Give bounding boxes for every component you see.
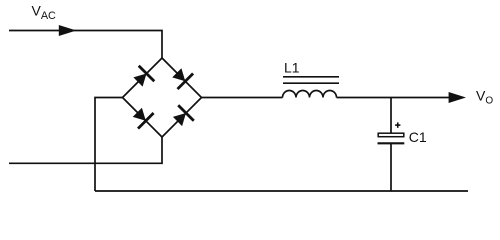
arrowhead: AC input direction bbox=[59, 25, 77, 36]
wire: AC input bottom, from left edge to bridge bottom vertex bbox=[9, 137, 162, 163]
capacitor C1 polarity + sign bbox=[395, 122, 400, 127]
wire: output node down to capacitor C1 top plate bbox=[390, 98, 392, 134]
wire: bridge right vertex to inductor bbox=[202, 97, 283, 99]
inductor L1 core lines bbox=[283, 77, 339, 83]
wire: AC input top, from left edge to bridge top vertex bbox=[9, 31, 162, 59]
diode D2 (bridge top-right, anode at top vertex, cathode at right vertex) bbox=[172, 68, 193, 89]
wire: bottom rail bbox=[95, 190, 468, 192]
capacitor C1 top plate (hollow rectangle) bbox=[378, 133, 404, 137]
diode D4 (bridge bottom-right, anode at bottom vertex, cathode at right vertex) bbox=[173, 105, 194, 126]
bridge rectifier: diamond wires bbox=[123, 58, 202, 137]
wire: capacitor C1 bottom plate to bottom rail bbox=[390, 144, 392, 191]
diode D3 (bridge bottom-left, anode at left vertex, cathode at bottom vertex) bbox=[133, 108, 154, 129]
wire: bridge left vertex to bottom rail bbox=[95, 98, 123, 192]
inductor L1 coil bbox=[283, 91, 337, 98]
svg-text:C1: C1 bbox=[409, 129, 427, 145]
capacitor C1 bottom plate bbox=[378, 142, 405, 144]
wire: inductor to output arrow bbox=[337, 97, 451, 99]
arrowhead: output VO bbox=[449, 92, 466, 103]
diode D1 (bridge top-left, anode at left vertex, cathode at top vertex) bbox=[133, 66, 154, 87]
svg-text:L1: L1 bbox=[284, 59, 300, 75]
